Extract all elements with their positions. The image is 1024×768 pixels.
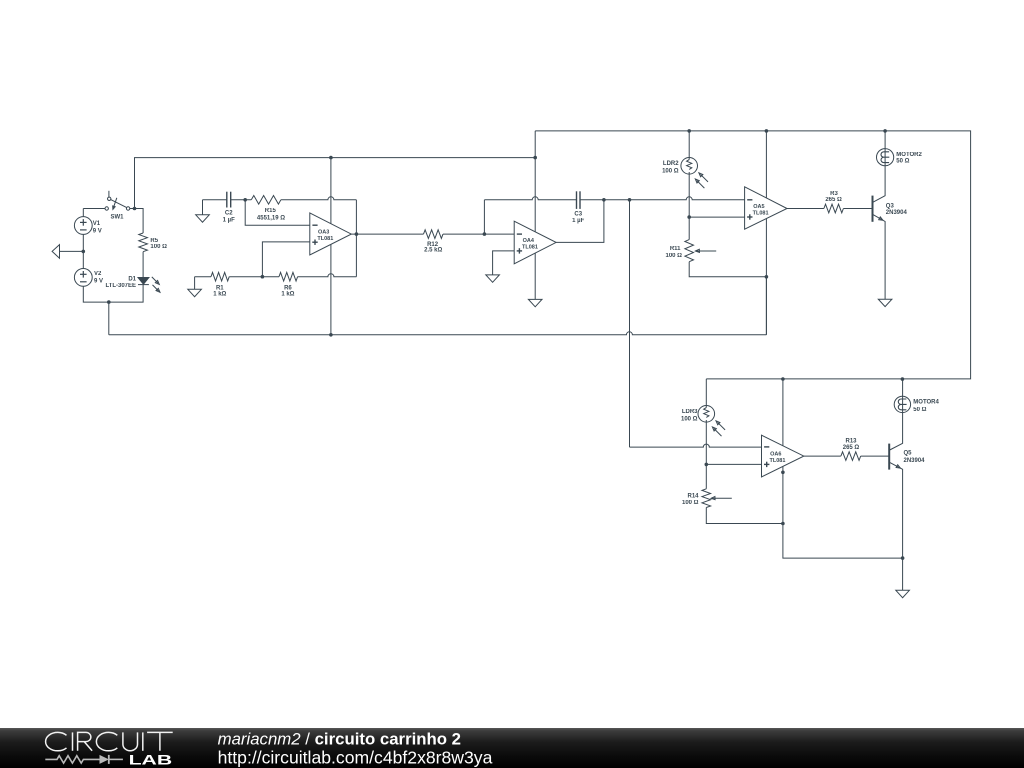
svg-text:9 V: 9 V xyxy=(93,228,102,234)
svg-text:100 Ω: 100 Ω xyxy=(662,169,679,175)
svg-text:50 Ω: 50 Ω xyxy=(896,159,909,165)
svg-text:TL081: TL081 xyxy=(753,211,769,217)
svg-text:LDR3: LDR3 xyxy=(682,409,698,415)
svg-text:100 Ω: 100 Ω xyxy=(666,253,683,259)
svg-text:1 µF: 1 µF xyxy=(223,218,235,224)
svg-text:LTL-307EE: LTL-307EE xyxy=(105,283,136,289)
svg-text:OA5: OA5 xyxy=(753,204,764,210)
svg-text:C3: C3 xyxy=(574,212,582,218)
svg-text:R11: R11 xyxy=(670,246,681,252)
svg-text:2.5 kΩ: 2.5 kΩ xyxy=(424,248,442,254)
svg-text:100 Ω: 100 Ω xyxy=(682,500,699,506)
svg-text:Q5: Q5 xyxy=(904,451,913,457)
svg-text:1 kΩ: 1 kΩ xyxy=(213,292,226,298)
svg-text:mariacnm2 / circuito carrinho: mariacnm2 / circuito carrinho 2 xyxy=(218,730,461,749)
svg-text:MOTOR4: MOTOR4 xyxy=(913,400,939,406)
svg-text:TL081: TL081 xyxy=(317,236,333,242)
svg-text:LDR2: LDR2 xyxy=(663,161,679,167)
svg-text:2N3904: 2N3904 xyxy=(904,458,926,464)
svg-text:1 µF: 1 µF xyxy=(572,218,584,224)
svg-text:C2: C2 xyxy=(225,211,233,217)
svg-text:OA3: OA3 xyxy=(318,230,329,236)
svg-text:9 V: 9 V xyxy=(94,278,103,284)
svg-text:TL081: TL081 xyxy=(522,244,538,250)
svg-text:R13: R13 xyxy=(845,438,857,444)
svg-text:OA6: OA6 xyxy=(770,452,781,458)
svg-text:2N3904: 2N3904 xyxy=(886,210,908,216)
svg-text:1 kΩ: 1 kΩ xyxy=(281,292,294,298)
svg-text:100 Ω: 100 Ω xyxy=(150,244,167,250)
svg-text:V1: V1 xyxy=(93,221,101,227)
svg-text:265 Ω: 265 Ω xyxy=(843,445,860,451)
svg-text:OA4: OA4 xyxy=(523,238,535,244)
svg-text:50 Ω: 50 Ω xyxy=(913,407,926,413)
svg-text:Q3: Q3 xyxy=(886,203,895,209)
svg-text:265 Ω: 265 Ω xyxy=(825,197,842,203)
svg-text:LAB: LAB xyxy=(129,752,173,768)
svg-text:SW1: SW1 xyxy=(110,215,124,221)
svg-text:TL081: TL081 xyxy=(769,458,785,464)
svg-text:100 Ω: 100 Ω xyxy=(681,417,698,423)
svg-text:R14: R14 xyxy=(687,493,699,499)
svg-text:D1: D1 xyxy=(128,277,136,283)
svg-text:MOTOR2: MOTOR2 xyxy=(896,152,922,158)
svg-text:http://circuitlab.com/c4bf2x8r: http://circuitlab.com/c4bf2x8r8w3ya xyxy=(218,747,493,767)
svg-text:R15: R15 xyxy=(265,208,277,214)
svg-text:V2: V2 xyxy=(94,271,102,277)
svg-text:4551,19 Ω: 4551,19 Ω xyxy=(257,216,285,222)
